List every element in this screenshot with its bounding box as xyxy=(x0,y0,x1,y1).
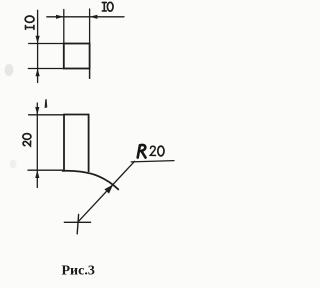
digit 0 xyxy=(107,2,113,11)
square contour xyxy=(64,44,90,69)
extension line: rect top edge extended left xyxy=(29,114,64,116)
digit 0 xyxy=(25,16,34,22)
arrow pointing up at bottom extension xyxy=(36,69,40,77)
digit 1 xyxy=(25,25,34,29)
extension line: square right edge extended up xyxy=(89,9,91,44)
radius arrowhead at arc xyxy=(104,185,113,194)
radius leader line from center xyxy=(78,161,135,222)
vertical dimension line (10) xyxy=(37,10,39,82)
digit 0 xyxy=(23,134,31,140)
arrow pointing down at rect top xyxy=(35,107,39,115)
dimension text 20 (bottom figure, rotated 90 ccw) xyxy=(23,134,31,146)
stray ink mark above 20-dim xyxy=(45,99,48,108)
digit 2 xyxy=(23,141,30,146)
rectangle left edge (thick) xyxy=(63,115,65,170)
horizontal dimension line (10) xyxy=(47,16,124,18)
dimension text 10 (top horizontal) xyxy=(102,2,113,11)
rectangle top edge (thick) xyxy=(64,114,89,116)
radius label R xyxy=(138,145,146,158)
center mark cross vertical xyxy=(77,214,78,233)
extension line: bottom of 20-dim xyxy=(28,169,64,171)
arrow pointing left at right extension xyxy=(90,15,98,19)
digit 2 xyxy=(150,146,155,155)
svg-text:Рис.3: Рис.3 xyxy=(62,264,95,279)
dimension text 10 (left of square, rotated 90 ccw) xyxy=(25,16,34,29)
arrow pointing down at top extension xyxy=(36,36,40,44)
rectangle right edge (thick) xyxy=(88,115,90,172)
extension line: square top edge extended left xyxy=(29,43,64,45)
extension line: square left edge extended up xyxy=(63,10,65,44)
extension line: square right edge extended down xyxy=(89,69,91,79)
R20 arc (thick contour) xyxy=(63,171,119,190)
center mark cross horizontal xyxy=(64,221,90,223)
radius label 20 xyxy=(150,146,164,156)
leader horizontal shelf xyxy=(131,161,174,162)
vertical dimension line (20) xyxy=(36,103,38,188)
extension line: square bottom edge extended left xyxy=(28,68,64,70)
digit 1 xyxy=(102,2,106,11)
arrow pointing right at left extension xyxy=(56,15,64,19)
digit 0 xyxy=(158,146,164,156)
arrow pointing up at bottom extension xyxy=(35,170,39,178)
faint scan smudge left margin xyxy=(5,64,14,76)
